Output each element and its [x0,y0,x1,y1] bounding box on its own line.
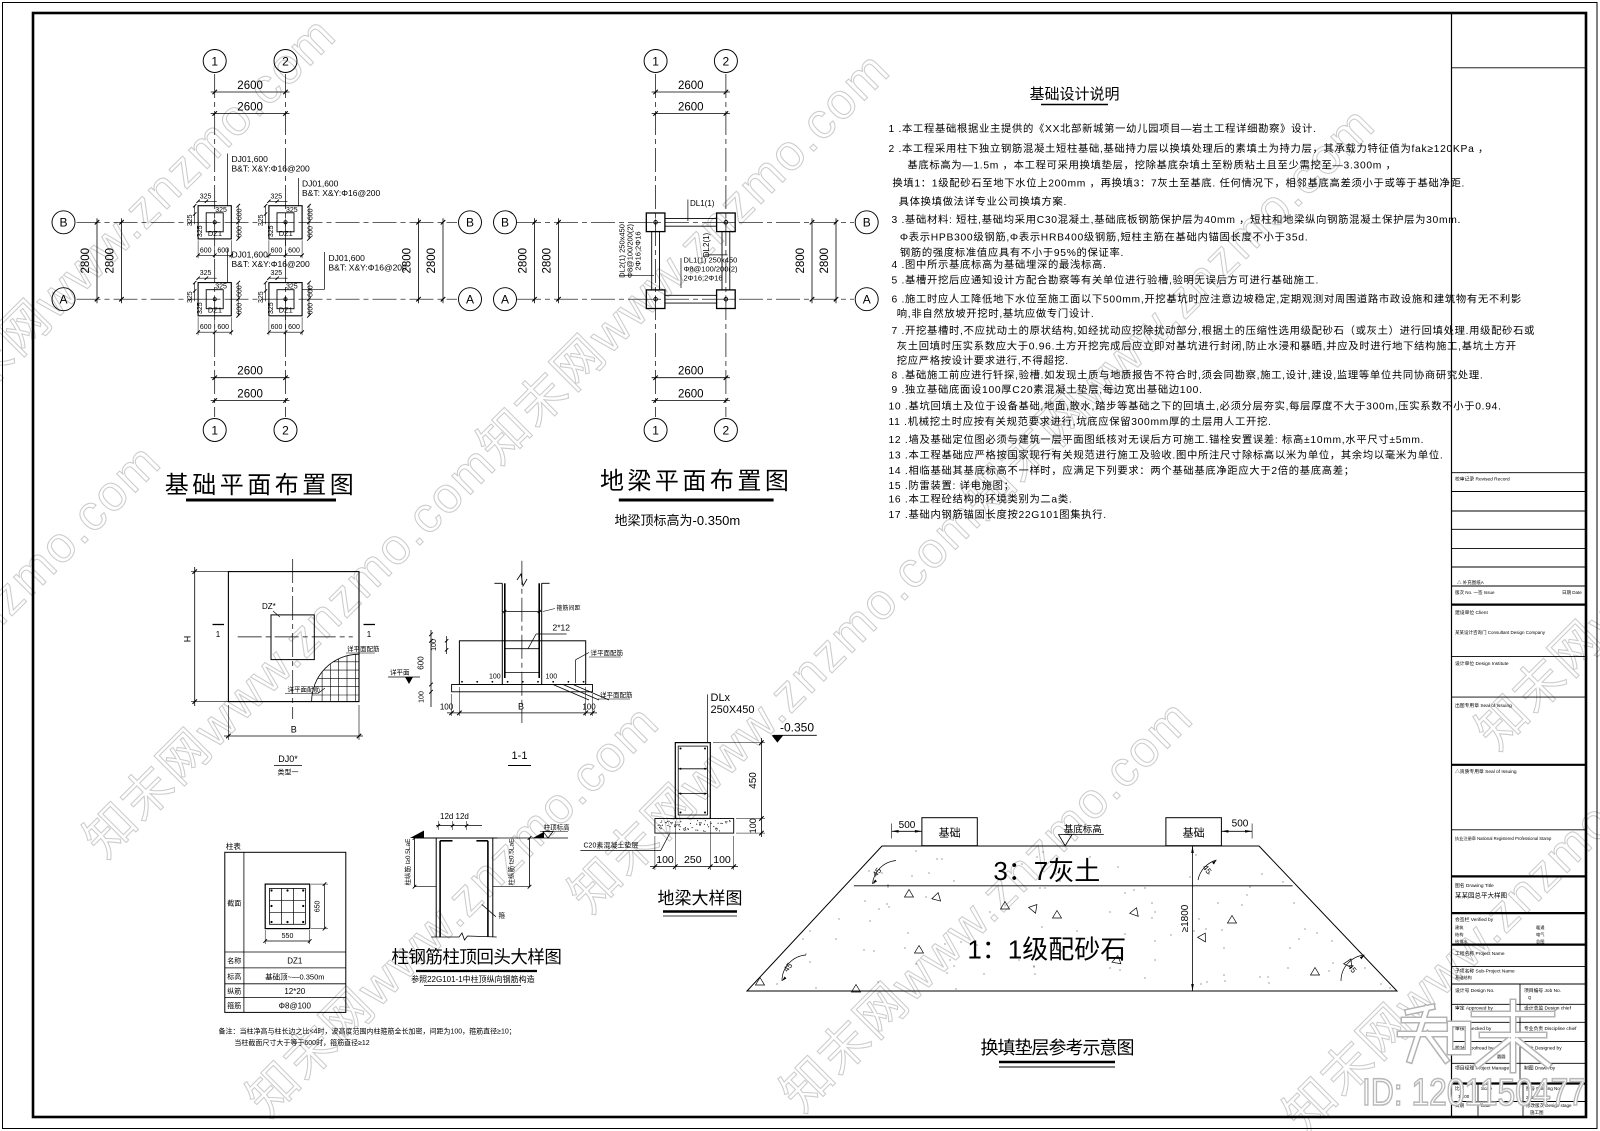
svg-text:A: A [863,293,871,307]
label DL1(1) top [688,199,715,221]
svg-text:11 .机械挖土时应按有关规范要求进行,坑底应保留300mm: 11 .机械挖土时应按有关规范要求进行,坑底应保留300mm厚的土层用人工开挖. [889,415,1272,428]
svg-text:325: 325 [187,214,194,226]
svg-text:详平面: 详平面 [390,668,410,677]
dimension 2800 left chain [80,218,99,303]
dimension 2600 bottom row 2 [211,389,290,403]
svg-text:Φ8@100: Φ8@100 [279,1001,312,1010]
svg-text:箍: 箍 [499,911,506,920]
axis circle B right [459,211,482,234]
axis circle 2 bottom [274,419,297,442]
svg-text:A: A [501,293,509,307]
svg-text:600: 600 [200,247,212,254]
dimension 2600 bottom row 1 [652,366,730,380]
left dim 0.5LaE [403,831,436,889]
svg-text:DJ01,600: DJ01,600 [232,250,269,260]
row labels [227,899,241,1010]
title 地梁平面布置图 [600,468,793,500]
footing DJ01 at 2-B [258,193,315,258]
svg-text:挖应严格按设计要求进行,不得超挖.: 挖应严格按设计要求进行,不得超挖. [897,354,1069,367]
svg-text:2600: 2600 [678,80,704,92]
svg-text:600: 600 [417,656,426,670]
dimension 2600 bottom row 1 [211,366,290,380]
title block labels [1455,476,1582,1117]
svg-text:2800: 2800 [795,248,807,274]
column top cut ticks [494,582,549,584]
outer footing square [228,572,359,702]
svg-text:B: B [518,702,524,712]
title block row lines [1452,68,1587,1117]
svg-text:2Φ16;2Φ16: 2Φ16;2Φ16 [684,274,723,283]
svg-text:2: 2 [282,54,289,68]
dim 12d 12d top [436,812,482,830]
svg-text:会签栏 Verified by: 会签栏 Verified by [1455,916,1494,923]
svg-text:325: 325 [187,291,194,303]
svg-text:4 .图中所示基底标高为基础埋深的最浅标高.: 4 .图中所示基底标高为基础埋深的最浅标高. [892,258,1107,271]
svg-text:2600: 2600 [237,80,263,92]
svg-text:A: A [59,293,67,307]
grid line column 2 [725,74,727,417]
svg-text:2800: 2800 [542,248,554,274]
rebar vertical right [487,841,489,937]
beam outline [675,743,710,819]
dimension 2800 right chain [402,218,421,303]
svg-text:基础平面布置图: 基础平面布置图 [165,472,358,499]
svg-text:12d: 12d [440,812,453,821]
svg-text:截面: 截面 [227,899,241,908]
column top line [415,837,498,839]
svg-text:2: 2 [723,54,730,68]
svg-text:Φ8@100/200(2): Φ8@100/200(2) [684,265,739,274]
svg-text:1 .本工程基础根据业主提供的《XX北部新城第一幼儿园项目—: 1 .本工程基础根据业主提供的《XX北部新城第一幼儿园项目—岩土工程详细勘察》设… [889,122,1317,135]
svg-text:换填1：1级配砂石至地下水位上200mm ，再换填3：7灰土: 换填1：1级配砂石至地下水位上200mm ，再换填3：7灰土至基底. 任何情况下… [892,177,1465,190]
right dim 0.5LaE [493,832,544,889]
svg-text:600: 600 [237,208,244,220]
svg-text:2600: 2600 [237,102,263,114]
svg-text:钢筋的强度标准值应具有不小于95%的保证率.: 钢筋的强度标准值应具有不小于95%的保证率. [900,246,1124,259]
svg-text:详平面配筋: 详平面配筋 [591,648,624,657]
center line vertical [292,559,294,719]
svg-text:2600: 2600 [678,102,704,114]
axis circle 1 bottom [644,419,667,442]
level mark -0.350 [772,721,817,743]
svg-text:DJ01,600: DJ01,600 [302,179,339,189]
svg-text:DLx: DLx [711,692,731,704]
svg-text:DZ1: DZ1 [279,306,293,315]
svg-text:基底标高为—1.5m ，本工程可采用换填垫层，挖除基底杂填土: 基底标高为—1.5m ，本工程可采用换填垫层，挖除基底杂填土至粉质粘土且至少需挖… [907,158,1396,171]
axis circle 2 top [274,50,297,73]
grid line column 1 [214,74,216,417]
svg-text:1: 1 [652,423,659,437]
svg-text:2 .本工程采用柱下独立钢筋混凝土短柱基础,基础持力层以换填: 2 .本工程采用柱下独立钢筋混凝土短柱基础,基础持力层以换填处理后的素填土为持力… [889,142,1490,155]
svg-text:B: B [501,216,509,230]
svg-text:B&T: X&Y:Φ16@200: B&T: X&Y:Φ16@200 [232,259,311,269]
svg-text:名称: 名称 [227,956,241,965]
svg-text:B&T: X&Y:Φ16@200: B&T: X&Y:Φ16@200 [302,188,381,198]
svg-text:3 .基础材料: 短柱,基础均采用C30混凝土,基础底板钢筋: 3 .基础材料: 短柱,基础均采用C30混凝土,基础底板钢筋保护层为40mm ，… [892,213,1462,226]
svg-text:柱钢筋柱顶回头大样图: 柱钢筋柱顶回头大样图 [391,947,561,967]
label DZ* [262,602,280,617]
svg-text:325: 325 [258,214,265,226]
title 柱钢筋柱顶回头大样图 [391,947,561,971]
vertical dim ≥1800 [1180,846,1194,991]
dimension 2600 top row 1 [211,80,290,94]
svg-text:响,非自然放坡开挖时,基坑应做专门设计.: 响,非自然放坡开挖时,基坑应做专门设计. [897,307,1095,320]
svg-text:图名 Drawing Title: 图名 Drawing Title [1455,882,1494,889]
stirrup line 2 [505,648,539,650]
beam stirrup inner [678,746,707,815]
svg-text:14 .相临基础其基底标高不一样时，应满足下列要求：两个基础: 14 .相临基础其基底标高不一样时，应满足下列要求：两个基础基底净距应大于2倍的… [889,464,1355,477]
svg-text:给排水: 给排水 [1455,938,1468,945]
grid line column 2 [285,74,287,417]
footing DJ01 at 1-A [187,270,244,335]
svg-text:325: 325 [271,193,283,200]
svg-text:某某设计咨询门 Consultant Design C: 某某设计咨询门 Consultant Design Company [1455,629,1546,636]
label DL1(1) center block [681,256,738,289]
svg-text:箍筋间距: 箍筋间距 [557,604,581,612]
svg-text:12*20: 12*20 [284,987,305,996]
section mark 1 left [213,625,225,640]
svg-text:325: 325 [197,225,204,237]
svg-text:100: 100 [440,703,454,712]
axis circle B left [494,211,517,234]
label 柱顶标高 [498,823,570,839]
cushion C20 [452,685,593,692]
svg-text:325: 325 [215,284,227,291]
dimension B bottom [224,705,363,740]
hatch quadrant (rebar zone) [312,652,359,702]
hatch leader lines bottom right [553,685,609,701]
leader label footing 2-A [302,252,407,289]
svg-text:暖通: 暖通 [1536,924,1545,931]
svg-text:600: 600 [271,324,283,331]
svg-text:具体换填做法详专业公司换填方案.: 具体换填做法详专业公司换填方案. [899,195,1068,208]
title 1-1 [508,750,531,766]
svg-text:B: B [59,216,67,230]
axis circle A right [459,288,482,311]
svg-text:柱纵筋 l≥0.5LaE: 柱纵筋 l≥0.5LaE [507,838,516,886]
svg-text:2*12: 2*12 [553,623,571,633]
svg-text:600: 600 [308,285,315,297]
svg-text:325: 325 [200,270,212,277]
svg-text:B: B [291,725,297,735]
svg-text:500: 500 [1232,819,1249,830]
label 详平面配筋 upper [346,644,380,653]
svg-text:325: 325 [286,207,298,214]
svg-text:Φ表示HPB300级钢筋,Φ表示HRB400级钢筋,短柱主筋: Φ表示HPB300级钢筋,Φ表示HRB400级钢筋,短柱主筋在基础内锚固长度不小… [900,231,1308,244]
svg-text:柱纵筋 l≥0.5LaE: 柱纵筋 l≥0.5LaE [403,838,412,886]
dim 550 below sketch [263,930,311,944]
axis circle 2 top [714,50,737,73]
svg-text:600: 600 [217,324,229,331]
svg-text:2800: 2800 [105,248,117,274]
znzmo logo 知末 [1400,1002,1552,1070]
svg-text:600: 600 [237,303,244,315]
svg-text:结构: 结构 [1455,931,1463,938]
grid line row A [517,298,854,300]
svg-text:H: H [183,636,193,643]
svg-text:2800: 2800 [80,248,92,274]
dim 650 right of sketch [311,882,328,930]
inner column square DZ* [271,615,314,660]
svg-text:B&T: X&Y:Φ16@200: B&T: X&Y:Φ16@200 [232,164,311,174]
label DL2(1) left block [618,223,655,278]
svg-text:换填垫层参考示意图: 换填垫层参考示意图 [981,1038,1134,1058]
level mark 详平面 left [388,668,420,685]
column DZ1 at 2-A [717,290,736,309]
svg-text:2Φ16;2Φ16: 2Φ16;2Φ16 [634,231,643,270]
svg-text:DZ1: DZ1 [208,306,222,315]
title 地梁大样图 [658,889,743,916]
svg-text:10 .基坑回填土及位于设备基础,地面,散水,踏步等基础之下: 10 .基坑回填土及位于设备基础,地面,散水,踏步等基础之下的回填土,必须分层夯… [889,399,1502,412]
rebar dots [680,748,707,814]
section mark 1 right [364,625,376,640]
svg-text:DZ1: DZ1 [208,229,222,238]
svg-text:9 .独立基础底面设100厚C20素混凝土垫层,每边宽出基础: 9 .独立基础底面设100厚C20素混凝土垫层,每边宽出基础边100. [892,383,1203,396]
dimension 2600 top row 1 [652,80,730,94]
svg-text:子项名称 Sub-Project Name: 子项名称 Sub-Project Name [1455,968,1515,975]
svg-text:参照22G101-1中柱顶纵向钢筋构造: 参照22G101-1中柱顶纵向钢筋构造 [411,974,535,984]
svg-text:详平面配筋: 详平面配筋 [600,690,633,699]
svg-text:2600: 2600 [678,389,704,401]
svg-text:工程名称 Project Name: 工程名称 Project Name [1455,950,1505,957]
table notes [219,1027,516,1048]
dimension 2600 bottom row 2 [652,389,730,403]
rebar hook right [476,840,488,842]
svg-text:≥1800: ≥1800 [1180,904,1191,932]
svg-text:450: 450 [748,772,759,789]
svg-text:7 .开挖基槽时,不应扰动土的原状结构,如经扰动应挖除扰动部: 7 .开挖基槽时,不应扰动土的原状结构,如经扰动应挖除扰动部分,根据土的压缩性选… [892,324,1536,337]
svg-text:某某园总平大样图: 某某园总平大样图 [1455,891,1507,900]
svg-text:B: B [863,216,871,230]
svg-text:-0.350: -0.350 [780,721,814,735]
column left edge [435,838,437,937]
trapezoid ground outline [747,846,1397,991]
center line horizontal [238,636,353,638]
table vertical divider [243,852,245,1012]
svg-text:B&T: X&Y:Φ16@200: B&T: X&Y:Φ16@200 [329,263,408,273]
svg-text:325: 325 [197,302,204,314]
svg-text:基础: 基础 [1183,827,1205,840]
svg-text:1: 1 [652,54,659,68]
svg-text:600: 600 [308,226,315,238]
right dim 450/100 [713,738,765,837]
column right edge [492,838,494,937]
axis circle 1 bottom [203,419,226,442]
svg-text:基础设计说明: 基础设计说明 [1029,86,1119,103]
dimension 2800 left chain [518,218,537,303]
svg-text:电气: 电气 [1536,931,1545,937]
label 2*12 [528,623,570,649]
axis circle B right [855,211,878,234]
svg-text:2800: 2800 [819,248,831,274]
title block vertical divider [1451,13,1453,1117]
stirrup line 3 [505,671,539,673]
svg-text:柱表: 柱表 [226,841,241,851]
lime-soil layer line [854,885,1293,887]
svg-text:600: 600 [271,247,283,254]
svg-text:325: 325 [268,225,275,237]
svg-text:600: 600 [308,303,315,315]
soil speckle dots [776,850,1390,989]
dimension H left [183,567,233,706]
notes title [1029,86,1119,105]
svg-text:250: 250 [684,854,702,866]
svg-text:地梁顶标高为-0.350m: 地梁顶标高为-0.350m [615,513,741,528]
svg-text:100: 100 [656,854,674,866]
svg-text:1-1: 1-1 [512,750,528,762]
svg-text:设计单位 Design Institute: 设计单位 Design Institute [1455,660,1509,667]
title DJ0* 类型一 [274,754,302,777]
svg-text:2600: 2600 [237,366,263,378]
svg-text:设计总监 Design chief: 设计总监 Design chief [1524,1005,1572,1012]
svg-text:600: 600 [288,324,300,331]
svg-text:2800: 2800 [518,248,530,274]
slope angle 45 upper-left [871,861,896,885]
svg-text:1: 1 [216,630,221,639]
row values [265,957,324,1011]
axis circle 1 top [203,50,226,73]
svg-text:备注：当柱净高与柱长边之比<4时，波高度范围内柱箍筋全长加密: 备注：当柱净高与柱长边之比<4时，波高度范围内柱箍筋全长加密，间距为100，箍筋… [219,1027,516,1036]
svg-text:建设单位 Client: 建设单位 Client [1455,609,1488,616]
title 换填垫层参考示意图 [981,1038,1134,1067]
svg-text:DZ1: DZ1 [279,229,293,238]
leader label footing 1-A [228,249,311,283]
leader label footing 1-B [228,154,311,207]
svg-text:基底标高: 基底标高 [1064,824,1102,836]
svg-text:总图: 总图 [1536,938,1544,945]
label 详平面配筋 bottom [598,690,633,699]
label DL2(1) right vertical [702,232,728,257]
svg-text:设计号 Design No.: 设计号 Design No. [1455,987,1494,994]
svg-text:项目经理 Project Manager: 项目经理 Project Manager [1455,1065,1511,1072]
svg-text:100: 100 [431,639,438,651]
svg-text:项目编号 Job No.: 项目编号 Job No. [1524,987,1561,994]
svg-text:2: 2 [723,423,730,437]
svg-text:2: 2 [282,423,289,437]
svg-text:基础结构: 基础结构 [1455,974,1472,981]
svg-text:B: B [466,216,474,230]
leader label footing 2-B [298,178,380,206]
table frame [225,852,346,1012]
svg-text:A: A [466,293,474,307]
svg-text:DJ0*: DJ0* [278,754,298,764]
svg-text:1：1级配砂石: 1：1级配砂石 [967,935,1126,965]
svg-text:100: 100 [582,703,596,712]
svg-text:DL1(1): DL1(1) [690,199,715,208]
axis circle A left [52,288,75,311]
svg-text:600: 600 [237,226,244,238]
axis circle 2 bottom [714,419,737,442]
rebar hook left [440,840,452,842]
footing DJ01 at 1-B [187,193,244,258]
foundation box left [922,818,977,846]
center line [521,561,523,723]
svg-text:17 .基础内钢筋锚固长度按22G101图集执行.: 17 .基础内钢筋锚固长度按22G101图集执行. [889,508,1107,521]
svg-text:当柱截面尺寸大于等于600时，箍筋直径≥12: 当柱截面尺寸大于等于600时，箍筋直径≥12 [234,1038,369,1047]
footing DJ01 at 2-A [258,270,315,335]
svg-text:△资质专用章 Seal of Issuing: △资质专用章 Seal of Issuing [1455,768,1517,775]
svg-text:600: 600 [308,208,315,220]
cushion hatched [655,819,734,834]
column DZ1 at 2-B [717,213,736,232]
waist bar line 1 [678,768,707,770]
svg-text:灰土回填时压实系数应大于0.96.土方开挖完成后应立即对基坑: 灰土回填时压实系数应大于0.96.土方开挖完成后应立即对基坑进行封闭,防止水浸和… [897,340,1517,353]
svg-text:2800: 2800 [426,248,438,274]
svg-text:325: 325 [258,291,265,303]
ground beam DL1(1) bottom [665,295,717,303]
svg-text:100: 100 [713,854,731,866]
svg-text:地梁平面布置图: 地梁平面布置图 [600,468,793,495]
svg-text:2600: 2600 [237,389,263,401]
svg-text:600: 600 [288,247,300,254]
column right edge [541,583,543,684]
svg-text:DL1(1) 250x450: DL1(1) 250x450 [684,256,738,265]
gravel triangles [756,890,1355,993]
column DZ1 at 1-A [646,290,665,309]
ground beam DL1(1) top [665,218,717,226]
stirrup line 1 [502,610,541,613]
title 基础平面布置图 [165,472,358,500]
svg-text:C20素混凝土垫层: C20素混凝土垫层 [584,841,639,850]
axis circle A right [855,288,878,311]
svg-text:325: 325 [271,270,283,277]
svg-text:2600: 2600 [678,366,704,378]
svg-text:100: 100 [748,818,758,833]
svg-text:325: 325 [200,193,212,200]
svg-text:版次 No. 一签 Issue: 版次 No. 一签 Issue [1455,589,1495,596]
notes body text [889,122,1536,521]
svg-text:柱顶标高: 柱顶标高 [544,823,571,832]
dimension 2800 right chain [795,218,814,303]
table row lines [225,952,346,998]
bottom dim 100 250 100 [650,821,738,870]
svg-text:标高: 标高 [227,972,241,981]
svg-text:325: 325 [215,207,227,214]
ground beam DL2(1) right [722,232,730,290]
svg-text:8 .基础施工前应进行钎探,验槽.如发现土质与地质报告不符合: 8 .基础施工前应进行钎探,验槽.如发现土质与地质报告不符合时,须会同勘察,施工… [892,368,1484,381]
axis circle B left [52,211,75,234]
svg-text:ID: 1201150477: ID: 1201150477 [1362,1072,1586,1114]
label DLx 250X450 [708,692,755,743]
rebar vertical left [439,841,441,937]
svg-text:纵筋: 纵筋 [227,987,241,996]
label 基底标高 [1059,824,1104,846]
label C20素混凝土垫层 [580,834,669,851]
svg-text:15 .防雷装置: 详电施图；: 15 .防雷装置: 详电施图； [889,479,1015,492]
svg-text:DZ1: DZ1 [287,957,303,966]
svg-text:基础: 基础 [939,827,961,840]
slope angle 45 upper-right [1198,860,1217,880]
column section sketch [265,884,310,929]
svg-text:16 .本工程砼结构的环境类别为二a类.: 16 .本工程砼结构的环境类别为二a类. [889,493,1073,506]
svg-text:600: 600 [237,285,244,297]
column rebar left [504,583,506,678]
grid line row B [517,221,854,223]
svg-text:△ 补充图纸A: △ 补充图纸A [1457,579,1484,586]
svg-text:建筑: 建筑 [1455,924,1464,931]
svg-text:详平面配筋: 详平面配筋 [288,685,321,694]
dim 500 right [1221,819,1252,839]
svg-text:13 .本工程基础应严格按国家现行有关规范进行施工及验收.图: 13 .本工程基础应严格按国家现行有关规范进行施工及验收.图中所注尺寸除标高以米… [889,448,1444,461]
grid line row B [77,221,458,223]
slope angle 45 lower-left [782,955,806,981]
svg-text:DL2(1): DL2(1) [702,232,711,257]
svg-text:执业注册章 National Registered Pro: 执业注册章 National Registered Professional S… [1455,835,1552,842]
svg-text:12 .墙及基础定位图必须与建筑一层平面图纸核对无误后方可施: 12 .墙及基础定位图必须与建筑一层平面图纸核对无误后方可施工.锚栓安置误差: … [889,433,1425,446]
grid line column 1 [655,74,657,417]
break mark top [517,574,527,586]
dimension 2600 top row 2 [211,102,290,116]
